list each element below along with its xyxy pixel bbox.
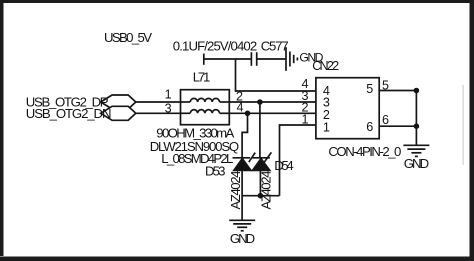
svg-text:1: 1 bbox=[323, 120, 330, 134]
svg-text:USB0_5V: USB0_5V bbox=[104, 30, 152, 45]
svg-text:L71: L71 bbox=[193, 70, 211, 85]
svg-text:D53: D53 bbox=[205, 163, 226, 178]
svg-text:4: 4 bbox=[237, 100, 244, 114]
diode D53 cathode bar bbox=[233, 157, 251, 159]
svg-text:CON-4PIN-2_0: CON-4PIN-2_0 bbox=[328, 144, 401, 159]
common-mode choke L71 box bbox=[181, 90, 230, 125]
L71 winding 1 wire bbox=[181, 101, 191, 103]
power stub USB0_5V end tick bbox=[203, 54, 205, 65]
svg-text:USB_OTG2_DN: USB_OTG2_DN bbox=[26, 106, 112, 121]
L71 winding 2 wire bbox=[181, 112, 191, 114]
junction pin5 net bbox=[414, 88, 420, 94]
wire L71 pin4 to CN22 pin2 bbox=[229, 112, 316, 114]
net flag USB_OTG2_DP bbox=[101, 95, 136, 109]
L71 winding 2 coil bbox=[190, 110, 219, 114]
svg-text:CN22: CN22 bbox=[312, 59, 339, 73]
svg-text:0.1UF/25V/0402: 0.1UF/25V/0402 bbox=[173, 39, 257, 54]
wire L71 pin2 to CN22 pin3 bbox=[229, 101, 316, 103]
wire VBUS down from C577 net bbox=[236, 59, 316, 91]
diode D54 body bbox=[253, 159, 270, 171]
svg-text:C577: C577 bbox=[261, 38, 289, 53]
L71 winding 1 coil bbox=[190, 98, 219, 102]
svg-text:5: 5 bbox=[382, 79, 389, 93]
junction anode bus bbox=[258, 193, 264, 199]
wire CN22 pin5 bbox=[379, 90, 416, 92]
svg-text:1: 1 bbox=[302, 112, 309, 126]
svg-text:5: 5 bbox=[366, 82, 373, 96]
wire CN22 pin1 to ground net bbox=[280, 125, 316, 196]
diode D54 cathode bar bbox=[252, 157, 270, 159]
faint page edge line bbox=[463, 85, 464, 165]
junction pin6 net bbox=[414, 123, 420, 129]
svg-text:GND: GND bbox=[404, 156, 430, 171]
svg-text:AZ4024: AZ4024 bbox=[258, 171, 273, 210]
wire D53 anode to ground bbox=[241, 170, 243, 220]
capacitor C577 plates bbox=[250, 52, 252, 66]
connector CN22 box bbox=[316, 78, 379, 139]
diode D54 zener slash bbox=[264, 152, 271, 162]
wire anode bus bbox=[242, 195, 279, 197]
svg-text:6: 6 bbox=[382, 113, 389, 127]
svg-text:AZ4024: AZ4024 bbox=[228, 171, 243, 210]
junction on DP line bbox=[257, 99, 263, 105]
wire C577 to GND symbol bbox=[257, 58, 286, 60]
svg-text:3: 3 bbox=[165, 102, 172, 116]
wire D53 cathode feed (jog) bbox=[242, 113, 247, 158]
wire DP flag to L71 pin1 bbox=[136, 101, 181, 103]
svg-text:GND: GND bbox=[230, 231, 255, 246]
wire USB0_5V to C577 bbox=[204, 58, 251, 60]
wire DN flag to L71 pin3 bbox=[136, 112, 181, 114]
junction on DN line bbox=[245, 111, 251, 117]
svg-text:6: 6 bbox=[366, 120, 373, 134]
ground at diodes bbox=[229, 219, 255, 221]
diode D53 body bbox=[234, 159, 251, 171]
svg-text:1: 1 bbox=[165, 88, 172, 102]
ground (sideways) at C577 bbox=[285, 47, 287, 71]
wire shield vertical to ground bbox=[415, 91, 417, 146]
diode D53 zener slash bbox=[249, 153, 255, 163]
net flag USB_OTG2_DN bbox=[101, 106, 136, 120]
wire D54 anode bbox=[259, 170, 261, 195]
wire CN22 pin6 bbox=[379, 125, 416, 127]
wire D54 cathode feed bbox=[259, 102, 261, 158]
ground at CN22 shield bbox=[403, 144, 429, 146]
svg-text:D54: D54 bbox=[274, 158, 294, 173]
